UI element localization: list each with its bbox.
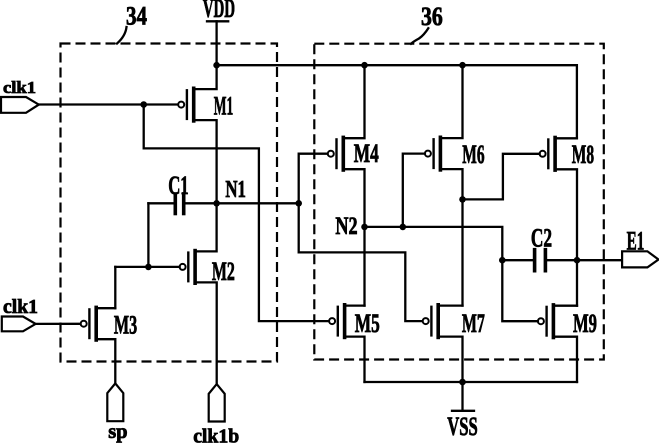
wire clk1 to M3 gate bbox=[36, 323, 81, 325]
node rail-M6 junction bbox=[459, 62, 466, 69]
node C2 left junction bbox=[499, 257, 506, 264]
clk1 upper input terminal bbox=[1, 97, 39, 113]
VDD terminal bar bbox=[207, 20, 228, 22]
wire N1 horizontal bbox=[217, 202, 299, 204]
svg-text:C1: C1 bbox=[168, 171, 189, 200]
capacitor C1 bbox=[148, 194, 216, 214]
svg-text:VSS: VSS bbox=[447, 412, 478, 441]
transistor M3 bbox=[81, 307, 116, 383]
wire top supply rail bbox=[217, 65, 577, 138]
wire clk1 riser down bbox=[144, 105, 329, 322]
wire N1 up to M4 gate bbox=[299, 154, 423, 321]
wire clk1 to M1 gate bbox=[39, 103, 178, 105]
svg-text:E1: E1 bbox=[627, 227, 645, 256]
transistor M6 bbox=[425, 65, 463, 305]
E1 output terminal bbox=[622, 251, 658, 267]
node clk1 branch junction bbox=[140, 101, 147, 108]
dashed block 36 bbox=[314, 44, 604, 360]
wire to E1 bbox=[577, 259, 622, 261]
node N2 junction bbox=[361, 224, 368, 231]
clk1 lower input terminal bbox=[2, 317, 36, 332]
wire M8 gate path bbox=[463, 154, 540, 200]
svg-text:N1: N1 bbox=[225, 177, 246, 203]
node rail-M4 junction bbox=[361, 62, 368, 69]
node bottom rail VSS junction bbox=[459, 379, 466, 386]
svg-text:N2: N2 bbox=[335, 213, 357, 240]
node C2 right junction bbox=[574, 257, 581, 264]
node N1 junction bbox=[213, 200, 220, 207]
node VDD rail junction bbox=[213, 62, 220, 69]
wire M9 gate riser bbox=[502, 260, 538, 321]
wire M3 drain riser bbox=[114, 267, 116, 308]
svg-text:sp: sp bbox=[108, 419, 127, 443]
svg-text:36: 36 bbox=[421, 2, 443, 31]
leader line for 34 bbox=[117, 27, 127, 44]
transistor M2 bbox=[180, 203, 217, 384]
transistor M8 bbox=[540, 138, 577, 306]
transistor M5 bbox=[329, 305, 364, 382]
svg-text:clk1: clk1 bbox=[3, 78, 36, 97]
ground VSS bar bbox=[452, 410, 474, 412]
svg-text:M7: M7 bbox=[462, 308, 485, 338]
leader line for 36 bbox=[411, 28, 428, 44]
node N2-M6 gate junction bbox=[400, 224, 407, 231]
svg-text:M4: M4 bbox=[354, 138, 379, 168]
wire M2 gate horizontal bbox=[115, 266, 179, 268]
clk1b terminal bbox=[209, 384, 225, 421]
svg-text:clk1: clk1 bbox=[3, 296, 38, 318]
svg-text:M9: M9 bbox=[573, 308, 597, 338]
capacitor C2 bbox=[502, 250, 577, 271]
svg-text:M6: M6 bbox=[462, 139, 484, 169]
node M2 gate junction bbox=[145, 264, 152, 271]
wire N2 horizontal bbox=[365, 227, 503, 260]
transistor M7 bbox=[423, 305, 463, 382]
transistor M4 bbox=[328, 65, 365, 305]
wire VSS drop bbox=[461, 382, 463, 410]
node N1 right junction bbox=[295, 200, 302, 207]
svg-text:VDD: VDD bbox=[203, 0, 235, 23]
transistor M9 bbox=[538, 305, 577, 382]
wire C1 left drop to M2 gate bbox=[147, 203, 149, 267]
wire bottom rail bbox=[365, 381, 578, 383]
svg-text:M3: M3 bbox=[114, 310, 137, 340]
svg-text:M2: M2 bbox=[212, 256, 235, 286]
sp terminal bbox=[107, 383, 123, 421]
wire VDD drop bbox=[215, 21, 217, 65]
transistor M1 bbox=[178, 65, 216, 203]
svg-text:M5: M5 bbox=[355, 308, 380, 338]
svg-text:M1: M1 bbox=[214, 91, 234, 121]
svg-text:clk1b: clk1b bbox=[193, 426, 239, 443]
dashed block 34 bbox=[61, 44, 278, 362]
svg-text:C2: C2 bbox=[531, 224, 552, 253]
svg-text:M8: M8 bbox=[572, 139, 594, 169]
svg-text:34: 34 bbox=[126, 2, 147, 31]
wire M6 gate drop to N2 bbox=[403, 154, 425, 227]
node M6 drain - M8 gate junction bbox=[459, 196, 466, 203]
